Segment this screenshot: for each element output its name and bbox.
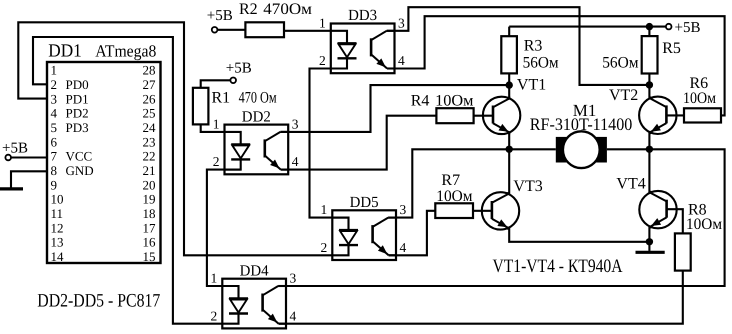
svg-text:19: 19 — [143, 192, 156, 207]
svg-text:3: 3 — [292, 117, 299, 132]
svg-text:DD4: DD4 — [240, 262, 269, 279]
svg-text:DD2: DD2 — [242, 108, 271, 125]
svg-text:5: 5 — [51, 120, 58, 135]
svg-text:10Ом: 10Ом — [436, 188, 472, 205]
+5B terminal for R1 — [230, 78, 236, 84]
+5B rail top right — [509, 26, 666, 28]
svg-text:DD1: DD1 — [48, 41, 82, 61]
svg-text:2: 2 — [51, 77, 58, 92]
DD5 LED diode — [339, 229, 358, 231]
motor M1 — [556, 137, 607, 163]
svg-text:PD1: PD1 — [66, 91, 89, 106]
svg-text:1: 1 — [213, 117, 220, 132]
svg-text:22: 22 — [143, 149, 156, 164]
svg-text:7: 7 — [51, 149, 58, 164]
svg-text:VT1-VT4 - КТ940А: VT1-VT4 - КТ940А — [493, 256, 623, 277]
svg-text:VT1: VT1 — [517, 77, 546, 94]
DD3 LED diode — [338, 42, 357, 44]
svg-text:4: 4 — [400, 240, 407, 255]
svg-text:+5В: +5В — [207, 8, 233, 24]
wire rail to R5 — [648, 27, 650, 36]
svg-text:R3: R3 — [524, 37, 543, 54]
svg-text:10Ом: 10Ом — [683, 90, 716, 107]
svg-text:14: 14 — [51, 249, 65, 264]
wire VT2 collector — [648, 85, 650, 99]
svg-text:20: 20 — [143, 177, 156, 192]
svg-text:18: 18 — [143, 206, 156, 221]
wire motor right — [607, 148, 650, 150]
resistor R4 — [436, 108, 473, 123]
wire R3 to VT1 collector node — [508, 73, 510, 85]
wire +5B terminal to R1 — [201, 80, 231, 88]
wire DD5 pin 4 to R7 — [389, 211, 436, 256]
svg-text:15: 15 — [143, 249, 156, 264]
wire DD2 pin 4 to R4 — [281, 116, 437, 170]
wire VCC terminal to DD1 pin 7 — [11, 156, 47, 158]
svg-text:2: 2 — [321, 240, 328, 255]
svg-text:3: 3 — [400, 202, 407, 217]
svg-text:R4: R4 — [411, 92, 430, 109]
svg-text:24: 24 — [143, 120, 157, 135]
svg-text:4: 4 — [398, 53, 405, 68]
svg-text:GND: GND — [66, 163, 94, 178]
resistor R1 — [193, 88, 209, 125]
wire R8 to DD4 pin 4 — [279, 271, 683, 324]
svg-text:DD5: DD5 — [350, 194, 379, 211]
wire R1 to DD2 pin 1 — [201, 124, 241, 131]
svg-text:470 Ом: 470 Ом — [239, 89, 277, 106]
svg-text:R5: R5 — [662, 40, 681, 57]
svg-text:ATmega8: ATmega8 — [95, 41, 156, 60]
transistor VT4 — [639, 191, 676, 228]
+5B supply terminal at DD1 VCC — [5, 155, 11, 161]
node emitter ground junction — [646, 238, 653, 245]
svg-text:26: 26 — [143, 91, 157, 106]
svg-text:PD3: PD3 — [66, 120, 89, 135]
resistor R2 — [245, 22, 284, 37]
svg-text:21: 21 — [143, 163, 156, 178]
DD5 phototransistor — [371, 225, 374, 243]
wire DD2 pin 3 to VT1 collector node — [280, 85, 509, 132]
svg-text:13: 13 — [51, 235, 64, 250]
wire rail to R3 — [508, 27, 510, 37]
transistor VT2 — [639, 97, 676, 134]
wire DD2 pin 2 to DD4 pin 1 — [207, 170, 241, 286]
svg-text:DD2-DD5 - PC817: DD2-DD5 - PC817 — [37, 291, 160, 312]
svg-text:4: 4 — [51, 106, 58, 121]
+5B terminal for R2 — [212, 27, 218, 33]
svg-text:VT4: VT4 — [616, 176, 645, 193]
svg-text:12: 12 — [51, 220, 64, 235]
transistor VT3 — [482, 192, 519, 229]
wire PD1 (pin 3) to DD5 pin 2 — [18, 22, 348, 255]
wire VT4 emitter — [648, 227, 650, 242]
DD1 pin names PD0-PD3 — [66, 77, 89, 135]
DD5 LED anode lead — [332, 218, 348, 256]
DD2 phototransistor — [263, 139, 266, 157]
DD3 LED anode lead — [331, 31, 347, 69]
svg-text:17: 17 — [143, 220, 157, 235]
node motor left junction — [506, 146, 513, 153]
svg-text:3: 3 — [290, 271, 297, 286]
svg-text:27: 27 — [143, 77, 157, 92]
svg-text:23: 23 — [143, 134, 156, 149]
optocoupler DD4 box — [222, 279, 286, 329]
svg-text:PD2: PD2 — [66, 106, 89, 121]
svg-text:56Ом: 56Ом — [602, 55, 638, 72]
svg-text:56Ом: 56Ом — [523, 54, 559, 71]
wire DD3 pin 4 to R6 — [387, 16, 724, 115]
svg-text:VT2: VT2 — [609, 87, 638, 104]
svg-text:R2: R2 — [239, 1, 258, 18]
resistor R8 — [675, 233, 691, 270]
wire PD0 (pin 2) to DD4 pin 2 — [33, 37, 239, 324]
resistor R3 — [501, 36, 517, 73]
wire VT2 base to R6 — [666, 114, 684, 116]
svg-text:VCC: VCC — [66, 149, 93, 164]
svg-text:6: 6 — [51, 134, 58, 149]
wire VT4 base to R8 — [667, 209, 683, 233]
optocoupler DD2 box — [225, 125, 289, 175]
wire VT4 collector — [648, 149, 650, 192]
wire VT2 emitter to motor node — [648, 132, 650, 149]
DD2 LED diode — [231, 143, 250, 145]
svg-text:1: 1 — [321, 202, 328, 217]
resistor R6 — [684, 108, 721, 122]
svg-text:+5В: +5В — [2, 141, 28, 157]
resistor R7 — [435, 203, 473, 218]
wire R7 to VT3 base — [473, 210, 492, 212]
svg-text:28: 28 — [143, 63, 156, 78]
optocoupler DD5 box — [332, 210, 396, 260]
DD3 phototransistor — [370, 38, 373, 56]
junction +5B rail at R5 — [646, 23, 653, 30]
microcontroller DD1 body — [47, 62, 161, 263]
svg-text:9: 9 — [51, 177, 58, 192]
svg-text:10: 10 — [51, 192, 64, 207]
svg-text:470Ом: 470Ом — [263, 1, 312, 18]
svg-text:16: 16 — [143, 235, 157, 250]
DD4 LED diode — [229, 297, 248, 299]
ground at DD1 pin 8 — [11, 171, 47, 187]
svg-text:+5В: +5В — [226, 61, 252, 77]
wire R2 to DD3 pin 1 — [284, 30, 347, 32]
resistor R5 — [642, 36, 658, 73]
wire R5 to VT2 collector node — [648, 74, 650, 85]
wire DD3 pin 2 to DD5 pin 1 — [310, 69, 349, 218]
svg-text:2: 2 — [319, 53, 326, 68]
svg-text:3: 3 — [51, 91, 58, 106]
wire DD5 pin 3 to motor left node — [388, 149, 509, 217]
svg-text:2: 2 — [213, 154, 220, 169]
svg-text:1: 1 — [319, 15, 326, 30]
wire motor right node to DD4 pin 3 — [278, 149, 724, 286]
DD1 pin numbers left column — [51, 63, 65, 264]
svg-text:R7: R7 — [441, 172, 460, 189]
node VT2 collector junction — [646, 81, 653, 88]
svg-text:4: 4 — [292, 154, 299, 169]
svg-text:10Ом: 10Ом — [435, 92, 473, 109]
DD2 LED anode lead — [225, 132, 241, 170]
wire VT1 emitter to motor node — [508, 132, 510, 149]
svg-text:DD3: DD3 — [348, 7, 377, 24]
optocoupler DD3 box — [331, 24, 395, 74]
svg-text:PD0: PD0 — [66, 77, 89, 92]
wire VT3 collector — [508, 149, 510, 194]
svg-text:10Ом: 10Ом — [686, 216, 722, 233]
node motor right junction — [646, 146, 653, 153]
wire VT1 collector — [508, 85, 510, 98]
svg-text:RF-310T-11400: RF-310T-11400 — [530, 114, 633, 134]
svg-text:R1: R1 — [212, 89, 231, 106]
svg-text:25: 25 — [143, 106, 156, 121]
DD1 pin numbers right column — [143, 63, 157, 264]
svg-text:3: 3 — [398, 15, 405, 30]
svg-text:11: 11 — [51, 206, 64, 221]
svg-text:1: 1 — [211, 271, 218, 286]
wire VT3 emitter to ground rail — [509, 228, 649, 242]
svg-text:4: 4 — [290, 308, 297, 323]
wire +5B terminal to R2 — [217, 29, 245, 31]
svg-text:VT3: VT3 — [513, 178, 542, 195]
wire DD3 pin 3 to VT2 collector node — [387, 7, 650, 85]
svg-text:+5В: +5В — [675, 20, 701, 36]
wire R4 to VT1 base — [474, 115, 493, 117]
svg-text:2: 2 — [211, 308, 218, 323]
svg-text:1: 1 — [51, 63, 58, 78]
ground symbol right — [648, 242, 650, 251]
node VT1 collector junction — [506, 81, 513, 88]
svg-text:8: 8 — [51, 163, 58, 178]
wire motor left — [509, 148, 556, 150]
DD4 phototransistor — [261, 294, 264, 312]
+5B terminal top right — [666, 24, 672, 30]
transistor VT1 — [483, 97, 520, 134]
DD4 LED anode lead — [222, 286, 238, 324]
